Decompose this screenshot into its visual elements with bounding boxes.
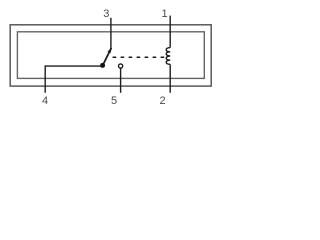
fixed contact tip	[108, 47, 112, 53]
pin 3 lead wire	[110, 18, 112, 48]
wire from pin 4 to common	[45, 66, 101, 93]
pin 1 lead wire	[169, 16, 171, 48]
pin 5 terminal circle	[119, 64, 123, 68]
svg-text:2: 2	[159, 95, 165, 107]
pin 2 lead wire	[169, 64, 171, 92]
relay outer case outline	[10, 25, 211, 86]
junction dot common contact	[100, 63, 105, 68]
svg-text:4: 4	[42, 95, 48, 107]
mechanical linkage dashed line	[113, 56, 165, 58]
svg-text:5: 5	[111, 95, 117, 107]
svg-text:1: 1	[162, 8, 168, 20]
relay inner case outline	[17, 32, 204, 79]
coil K1	[166, 48, 170, 65]
armature movable contact	[103, 48, 111, 65]
pin 5 lead wire	[120, 68, 122, 93]
svg-text:3: 3	[103, 8, 109, 20]
